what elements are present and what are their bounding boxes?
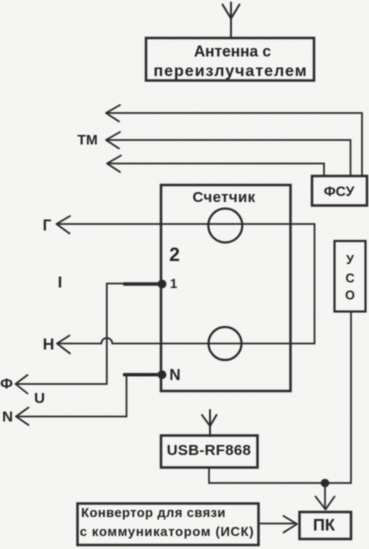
meter voltage circle top — [208, 209, 242, 243]
wire: TM arrow 3 (bottom) — [107, 156, 324, 177]
wire: arrow down into ПК — [316, 483, 335, 510]
svg-text:ФСУ: ФСУ — [324, 183, 355, 199]
junction dot: bus to ПК — [321, 479, 330, 488]
meter voltage circle bottom — [209, 327, 242, 360]
svg-text:О: О — [345, 289, 355, 303]
svg-text:С: С — [345, 272, 354, 286]
block: Конвертор для связи с коммуникатором (ИСК) — [78, 504, 259, 546]
wire: Г line through meter (left arrow) — [57, 216, 315, 234]
svg-text:У: У — [346, 253, 354, 267]
block: Счетчик (meter) — [161, 185, 291, 391]
wire: voltage loop right vertical — [314, 224, 316, 344]
wire: Н line with jump over Ф wire — [57, 336, 315, 354]
svg-text:ПК: ПК — [313, 517, 336, 535]
wire: N branch (thin) with arrow — [16, 376, 127, 426]
block: USB-RF868 — [161, 436, 258, 468]
block: Антенна с переизлучателем — [146, 38, 314, 81]
svg-text:Г: Г — [43, 218, 52, 235]
junction dot: terminal N — [158, 370, 167, 379]
block: ФСУ — [312, 176, 367, 206]
wire: thick current segment to terminal 1 — [125, 282, 163, 285]
wire: thick current segment to terminal N — [125, 373, 163, 376]
antenna symbol (roof antenna) — [223, 3, 240, 38]
svg-text:N: N — [2, 409, 13, 426]
svg-text:U: U — [34, 390, 45, 407]
wire: USB-RF868 down to bus — [209, 468, 351, 484]
junction dot: terminal 1 — [158, 280, 167, 289]
svg-text:Антенна с: Антенна с — [194, 44, 271, 61]
svg-text:Счетчик: Счетчик — [192, 189, 255, 206]
svg-text:переизлучателем: переизлучателем — [153, 63, 307, 80]
svg-text:с коммуникатором (ИСК): с коммуникатором (ИСК) — [80, 524, 255, 539]
svg-text:ТМ: ТМ — [77, 132, 97, 148]
svg-text:2: 2 — [169, 245, 180, 266]
wire: TM arrow 2 (middle) — [106, 132, 351, 176]
antenna symbol above USB-RF868 — [202, 410, 217, 436]
wire: Конвертор to ПК arrow — [259, 516, 298, 533]
wire: TM arrow 1 (top) — [106, 105, 362, 176]
svg-text:N: N — [169, 367, 180, 384]
svg-text:Н: Н — [43, 337, 55, 354]
svg-text:Ф: Ф — [0, 376, 13, 393]
svg-text:USB-RF868: USB-RF868 — [167, 442, 251, 459]
svg-text:1: 1 — [170, 276, 177, 291]
block: УСО — [335, 241, 366, 312]
block: ПК — [300, 512, 352, 539]
wire: УСО vertical down to bus — [350, 312, 352, 484]
wire: Ф branch (thin) with arrow — [16, 284, 126, 394]
svg-text:Конвертор для связи: Конвертор для связи — [81, 505, 226, 520]
svg-text:I: I — [58, 275, 62, 292]
